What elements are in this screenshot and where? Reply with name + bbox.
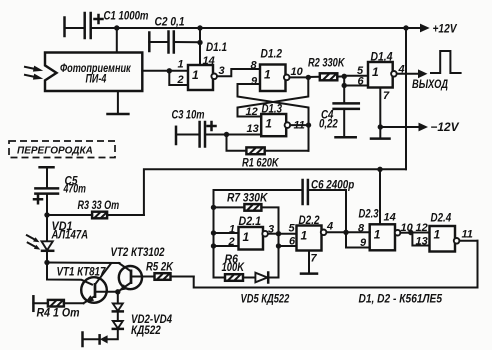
wire D1.2 out to D1.3 pin 12 [238, 77, 309, 116]
node VT2 emitter / VT1 base / VD2 [115, 289, 120, 294]
wire +12V top rail [91, 27, 422, 29]
svg-text:4: 4 [326, 221, 333, 233]
gate D1.3 [261, 114, 290, 136]
diode VD4 [83, 329, 118, 346]
wire to pin 2 [169, 71, 188, 85]
svg-text:D2.4: D2.4 [431, 211, 452, 225]
capacitor C1 1000m [65, 9, 149, 39]
node pin 1 left [211, 230, 216, 235]
wire to pin 6 [344, 85, 368, 87]
dashed partition box ПЕРЕГОРОДКА [9, 141, 115, 158]
ground photoreceiver [108, 91, 129, 114]
wire to D2.3 pin 8 [346, 231, 370, 233]
wire D1.1 out to D1.2 pin 8 [217, 69, 260, 76]
svg-text:1: 1 [301, 229, 308, 243]
svg-text:1: 1 [434, 228, 441, 242]
wire D2.2 out [327, 231, 347, 233]
wire D2.3 out [400, 232, 410, 234]
svg-text:7: 7 [311, 252, 318, 264]
resistor R2 330K [308, 56, 346, 81]
LED arrows [27, 235, 40, 249]
svg-text:12: 12 [416, 222, 428, 234]
svg-text:D1.2: D1.2 [261, 47, 283, 61]
svg-text:R1 620K: R1 620K [242, 155, 280, 169]
diode VD3 [113, 311, 123, 329]
wire collectors rail VD1 to VT2 [47, 262, 120, 265]
svg-text:C3 10m: C3 10m [172, 108, 205, 122]
wire to D2.3 pin 9 [346, 232, 370, 247]
wire rail to photoreceiver [116, 28, 118, 53]
light input arrows [25, 66, 43, 80]
wire to D2.4 pin 12 [411, 232, 430, 234]
svg-text:−12V: −12V [431, 120, 460, 134]
LED VD1 АЛ147А [42, 215, 89, 263]
ground D2.2 pin 7 [301, 272, 317, 275]
node rail / D2.3 pin 14 [377, 167, 382, 172]
svg-text:0,22: 0,22 [319, 116, 338, 130]
svg-text:R5 2K: R5 2K [146, 259, 174, 273]
transistor VT2 КТ3102 [111, 245, 165, 291]
gate D2.4 [430, 226, 460, 252]
gate D1.4 [368, 62, 397, 88]
capacitor C2 0,1 [149, 15, 200, 53]
svg-text:13: 13 [416, 235, 428, 247]
diode VD2 [113, 292, 123, 312]
gate D1.1 [188, 65, 217, 90]
node pin 6 / C4 [342, 83, 347, 88]
node D1.2 out [306, 75, 311, 80]
svg-text:7: 7 [383, 90, 390, 102]
resistor R7 330K [214, 190, 279, 233]
svg-text:КД522: КД522 [131, 323, 161, 337]
wire R5 to D2.4 output long return [194, 241, 478, 288]
node C2/pin14 [197, 40, 202, 45]
svg-text:1: 1 [178, 59, 184, 71]
svg-text:R7 330K: R7 330K [227, 190, 269, 204]
svg-text:13: 13 [247, 123, 259, 135]
wire pin 14 drop of D2.3 [379, 169, 381, 224]
wire down to pin 6 branch [343, 76, 345, 103]
-12V supply arrow [380, 120, 459, 134]
wire bus to pin 2 [214, 245, 239, 247]
gate D2.2 [297, 226, 327, 251]
wire output ВЫХОД arrow [397, 69, 448, 91]
wire to D2.2 pin 5 [279, 233, 297, 235]
svg-text:1: 1 [243, 230, 250, 244]
wire down to pin 6 row [278, 234, 280, 278]
wire +12V vertical to lower rail [405, 28, 407, 169]
svg-text:1: 1 [264, 68, 271, 82]
svg-text:ПИ-4: ПИ-4 [86, 72, 107, 86]
svg-text:8: 8 [251, 60, 258, 72]
svg-text:C1 1000m: C1 1000m [104, 9, 149, 23]
svg-text:1: 1 [192, 68, 199, 82]
svg-text:14: 14 [384, 211, 396, 223]
wire D1.3 out down to R1 [308, 125, 310, 151]
+12V supply arrow [403, 22, 457, 36]
svg-text:10: 10 [291, 66, 304, 78]
svg-text:D2.3: D2.3 [359, 207, 379, 221]
svg-text:D1, D2 - К561ЛЕ5: D1, D2 - К561ЛЕ5 [359, 292, 443, 306]
svg-text:1: 1 [265, 117, 272, 131]
gate D1.2 [260, 65, 290, 92]
wire D2.1 out [268, 233, 279, 235]
capacitor C5 470m [34, 167, 86, 215]
svg-text:6: 6 [289, 236, 296, 248]
node R2 / D1.4 pin 5 [342, 74, 347, 79]
svg-text:8: 8 [358, 222, 365, 234]
resistor R6 100K [214, 252, 256, 281]
gate D2.1 [239, 227, 268, 250]
wire D2.4 out to corner [460, 240, 478, 242]
wire D1.3 output [290, 124, 308, 126]
resistor R1 620K [227, 135, 309, 170]
svg-text:ПЕРЕГОРОДКА: ПЕРЕГОРОДКА [17, 146, 93, 157]
node D2.2 out / C6 / D2.3 inputs [343, 230, 348, 235]
wire pin 9 latch loop [238, 84, 309, 125]
svg-text:1: 1 [372, 65, 379, 79]
svg-text:1: 1 [374, 227, 381, 241]
svg-text:6: 6 [358, 76, 365, 88]
transistor VT1 КТ817 [57, 264, 118, 304]
wire D1.2 output [290, 76, 309, 78]
node C5 / R3 / VD1 [44, 212, 49, 217]
output pulse waveform icon [431, 51, 461, 73]
wire rail drop to C2 and pin 14 [199, 28, 201, 65]
svg-text:R2 330K: R2 330K [308, 56, 346, 70]
wire to pin 5 [344, 75, 368, 77]
node C3 / pin 13 / R1 [224, 132, 229, 137]
ground C4 [336, 136, 356, 139]
node pin7 / -12V [378, 124, 383, 129]
ground D1.4 pin 7 [371, 137, 390, 140]
resistor R4 1 Om [33, 296, 83, 319]
svg-text:100K: 100K [222, 260, 246, 274]
svg-text:12: 12 [246, 106, 258, 118]
diode VD5 КД522 [241, 273, 290, 306]
svg-text:+12V: +12V [433, 22, 458, 36]
svg-text:2: 2 [177, 74, 184, 86]
resistor R3 33 Om [47, 198, 144, 219]
node pin 2 left [211, 243, 216, 248]
oscillator left bus wire [214, 190, 303, 278]
svg-text:9: 9 [251, 76, 258, 88]
svg-text:АЛ147А: АЛ147А [51, 227, 88, 241]
svg-text:C2 0,1: C2 0,1 [155, 15, 185, 29]
svg-text:D1.1: D1.1 [206, 40, 227, 54]
wire VD1 node down to VT1 base [47, 263, 92, 285]
wire D2.2 pin 7 [308, 251, 310, 274]
resistor R5 2K [146, 259, 194, 279]
svg-text:VD5 КД522: VD5 КД522 [241, 291, 290, 305]
photoreceiver U1 Фотоприемник ПИ-4 [45, 53, 142, 92]
node rail/C2 [197, 25, 202, 30]
gate D2.3 [370, 224, 401, 250]
svg-text:R3 33 Om: R3 33 Om [78, 198, 120, 212]
wire photoreceiver output [142, 70, 188, 72]
svg-text:ВЫХОД: ВЫХОД [412, 77, 448, 91]
node photo out / D1.1 inputs [167, 68, 172, 73]
wire to D2.4 pin 13 [412, 233, 429, 246]
node pin 6 branch [276, 243, 281, 248]
svg-text:9: 9 [360, 237, 367, 249]
node D1.3 out [306, 122, 311, 127]
node R7 left [211, 205, 216, 210]
wire to D2.2 pin 6 [279, 245, 297, 247]
svg-text:470m: 470m [63, 181, 86, 195]
svg-text:5: 5 [289, 223, 296, 235]
svg-text:11: 11 [462, 229, 473, 241]
capacitor C4 0,22 [319, 103, 359, 137]
node VD1 / VT base branch [44, 260, 49, 265]
capacitor C3 10m [172, 108, 227, 147]
node D2.1 out / pin 5 [276, 231, 281, 236]
node D2.3 out / D2.4 inputs [408, 230, 413, 235]
svg-text:VT1 КТ817: VT1 КТ817 [57, 264, 107, 278]
wire bus to pin 1 [214, 232, 239, 234]
node rail/photoreceiver [114, 25, 119, 30]
wire C3 node to D1.3 pin 13 [227, 134, 262, 136]
svg-text:VT2 КТ3102: VT2 КТ3102 [111, 245, 165, 259]
capacitor C6 2400p [303, 178, 355, 233]
wire lower +12V rail [144, 169, 406, 215]
wire D1.4 pin 7 down [379, 88, 381, 139]
